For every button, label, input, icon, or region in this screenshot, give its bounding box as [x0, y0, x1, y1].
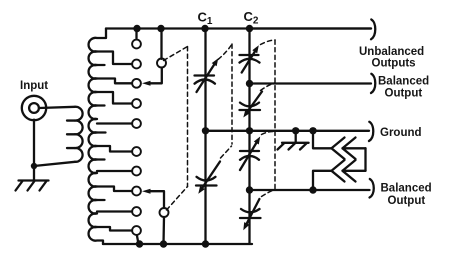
svg-text:C2: C2: [244, 9, 259, 27]
output line 1 unbalanced: [250, 27, 372, 29]
dashed link S2 to gang: [167, 187, 188, 211]
ground symbol input: [16, 181, 49, 191]
stub to chassis ground: [295, 131, 297, 143]
junction dot top rail at C2: [246, 25, 253, 32]
dashed link S1 to gang: [164, 47, 188, 61]
tap wire to contact 8: [97, 187, 132, 192]
hook output 2: [371, 74, 375, 93]
tap contact circle 10: [132, 226, 141, 235]
junction dot top rail at C1: [201, 25, 208, 32]
link connector chevron D: [343, 160, 356, 182]
capacitor C1 upper curved plate: [195, 80, 216, 84]
top rail wire: [106, 27, 371, 29]
capacitor C1 lower fixed plate: [196, 184, 217, 186]
dashed link C2 arrowC to gang: [262, 131, 276, 134]
junction dot C1 ground line: [202, 127, 209, 134]
selector S1 arrow head: [142, 81, 151, 86]
link right vertical wire: [364, 148, 366, 171]
tap wire to contact 4: [97, 92, 132, 104]
link upper feed wire: [313, 131, 331, 149]
primary coil return ticks: [67, 121, 75, 149]
ground line wire: [206, 130, 370, 132]
svg-text:C1: C1: [198, 10, 213, 28]
tap contact circle 2: [132, 60, 141, 69]
selector S2 wire to bottom rail: [162, 217, 165, 244]
wire input center to primary top: [39, 107, 75, 108]
wire input shield down: [33, 120, 35, 166]
capacitor C2 section D fixed plate: [240, 217, 261, 219]
capacitor C2 section A arrow head: [252, 45, 258, 53]
capacitor C1 body wire: [204, 29, 206, 245]
svg-text:Output: Output: [385, 88, 423, 100]
dashed link C2 arrowB to gang: [261, 83, 275, 91]
capacitor C2 body wire: [248, 29, 250, 244]
capacitor C2 section C arrow: [240, 140, 258, 170]
link connector chevron B: [343, 138, 356, 160]
svg-text:Input: Input: [20, 80, 48, 92]
selector S1 pivot circle: [157, 59, 166, 68]
input coax connector J1 outer: [22, 96, 46, 120]
junction dot top rail at taps: [133, 25, 140, 32]
tap wire to contact 10: [97, 227, 132, 231]
capacitor C2 section B fixed plate: [240, 109, 261, 111]
junction dot C2 output2: [246, 80, 253, 87]
output line 4 balanced: [250, 189, 370, 191]
hook output 4: [370, 179, 374, 198]
output line 2 balanced: [250, 82, 372, 84]
wire primary bottom to input ground junction: [34, 162, 75, 166]
stub contact10 to bottom rail: [137, 236, 139, 244]
capacitor C1 upper arrow head: [212, 58, 219, 66]
junction dot link upper: [309, 127, 316, 134]
capacitor C2 section D arrow: [245, 199, 259, 227]
link upper right wire: [343, 147, 366, 149]
capacitor C2 section B arrow head: [243, 110, 250, 118]
capacitor C1 upper fixed plate: [195, 74, 215, 76]
link connector chevron A: [332, 138, 345, 160]
dashed gang line C1: [231, 44, 233, 144]
transformer return ticks: [97, 65, 105, 200]
capacitor C2 section B curved plate: [240, 103, 259, 107]
link lower right wire: [343, 170, 366, 172]
stub contact1 to top rail: [135, 29, 137, 38]
wire junction to ground: [33, 166, 35, 181]
capacitor C1 lower arrow: [201, 162, 220, 191]
capacitor C2 section A fixed plate: [240, 54, 259, 56]
tap wire to contact 9: [97, 210, 132, 212]
junction dot bottom rail at taps: [136, 240, 143, 247]
capacitor C1 upper arrow: [197, 62, 217, 92]
svg-text:Outputs: Outputs: [372, 58, 416, 70]
svg-text:Output: Output: [388, 195, 426, 207]
hook ground: [369, 122, 373, 141]
tap wire to contact 2: [97, 52, 132, 65]
svg-text:Balanced: Balanced: [381, 183, 432, 195]
link connector chevron C: [332, 160, 345, 182]
junction dot bottom rail at C1: [202, 240, 209, 247]
junction dot C2 output4: [246, 186, 253, 193]
dashed link C1 upper arrow to gang: [218, 44, 232, 60]
transformer T1 secondary winding: [89, 29, 106, 245]
tap contact circle 3: [132, 79, 141, 88]
dashed link C2 arrowA to gang: [261, 40, 276, 45]
tap contact circle 8: [132, 187, 141, 196]
tap wire to contact 3: [97, 79, 132, 84]
capacitor C2 section D curved plate: [241, 209, 260, 212]
capacitor C1 lower arrow head: [198, 186, 205, 194]
selector S2 wiper arm: [150, 191, 165, 208]
tap contact circle 9: [132, 207, 141, 216]
tap contact circle 7: [132, 167, 141, 176]
capacitor C2 section C fixed plate: [240, 150, 259, 152]
capacitor C2 section C curved plate: [240, 156, 259, 160]
selector S1 feed wire: [160, 29, 162, 59]
tap wire to contact 6: [97, 146, 132, 152]
chassis ground symbol: [278, 143, 309, 150]
junction dot bottom rail at selector: [160, 240, 167, 247]
dashed gang line C2: [274, 40, 276, 189]
transformer center tap stub: [97, 131, 106, 133]
svg-text:Ground: Ground: [380, 127, 422, 139]
dashed gang line selectors: [187, 47, 189, 187]
capacitor C1 lower curved plate: [197, 177, 216, 181]
dashed link C2 arrowD to gang: [262, 190, 275, 197]
tap contact circle 1: [132, 40, 141, 49]
tap wire to contact 5: [97, 122, 132, 124]
junction dot C2 ground line: [246, 127, 253, 134]
tap wire to contact 7: [97, 170, 132, 172]
junction dot input ground: [31, 163, 37, 169]
hook output 1: [371, 20, 375, 40]
capacitor C2 section C arrow head: [254, 137, 260, 145]
junction dot top rail at selector: [157, 25, 164, 32]
junction dot ground symbol: [292, 127, 299, 134]
capacitor C2 section A curved plate: [240, 59, 260, 63]
svg-text:Unbalanced: Unbalanced: [359, 46, 424, 58]
junction dot link lower: [309, 186, 316, 193]
capacitor C2 section B arrow: [246, 92, 262, 115]
dashed link C1 lower arrow to gang: [221, 146, 232, 158]
selector S2 pivot circle: [160, 208, 169, 217]
bottom rail wire: [103, 243, 252, 245]
primary coil L1: [75, 107, 83, 162]
capacitor C2 section D arrow head: [243, 222, 249, 230]
input coax connector J1 inner: [29, 103, 39, 113]
link lower left wire: [313, 171, 332, 190]
tap contact circle 5: [132, 119, 141, 128]
selector S1 wiper arm: [150, 68, 162, 84]
selector S2 arrow head: [142, 189, 151, 194]
capacitor C2 section A arrow: [242, 49, 257, 73]
tap contact circle 4: [132, 99, 141, 108]
svg-text:Balanced: Balanced: [378, 76, 429, 88]
tap contact circle 6: [132, 147, 141, 156]
